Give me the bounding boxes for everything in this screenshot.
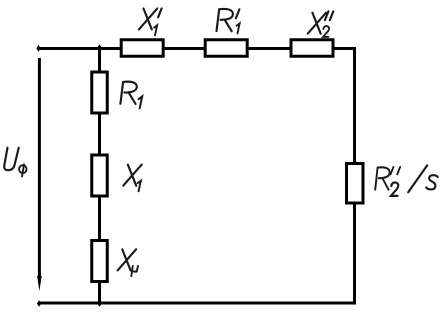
resistor R'1 box (205, 40, 247, 57)
node top-middle junction (97, 44, 101, 51)
resistor R1 box (92, 72, 108, 113)
node top-left (36, 45, 40, 52)
label R1 (120, 82, 142, 109)
label X'1 (139, 8, 162, 35)
wire bottom horizontal (39, 302, 356, 305)
label R''2 /s (375, 165, 437, 195)
resistor Xmu box (92, 241, 108, 282)
resistor X1 box (92, 155, 108, 196)
label X''2 (308, 11, 333, 37)
label U_phi (4, 148, 26, 177)
wire right vertical (353, 47, 356, 303)
resistor X''2 box (291, 40, 333, 57)
node bottom-left (37, 300, 41, 307)
resistor X'1 box (121, 40, 163, 57)
label Xmu (118, 249, 138, 276)
resistor R''2 box (347, 164, 364, 204)
voltage arrowhead (37, 276, 42, 291)
wire top horizontal (38, 47, 355, 50)
wire middle branch vertical (98, 49, 101, 304)
node bottom-middle junction (97, 300, 101, 307)
voltage arrow line U_phi (38, 58, 41, 277)
label R'1 (217, 9, 240, 33)
label X1 (123, 165, 141, 192)
